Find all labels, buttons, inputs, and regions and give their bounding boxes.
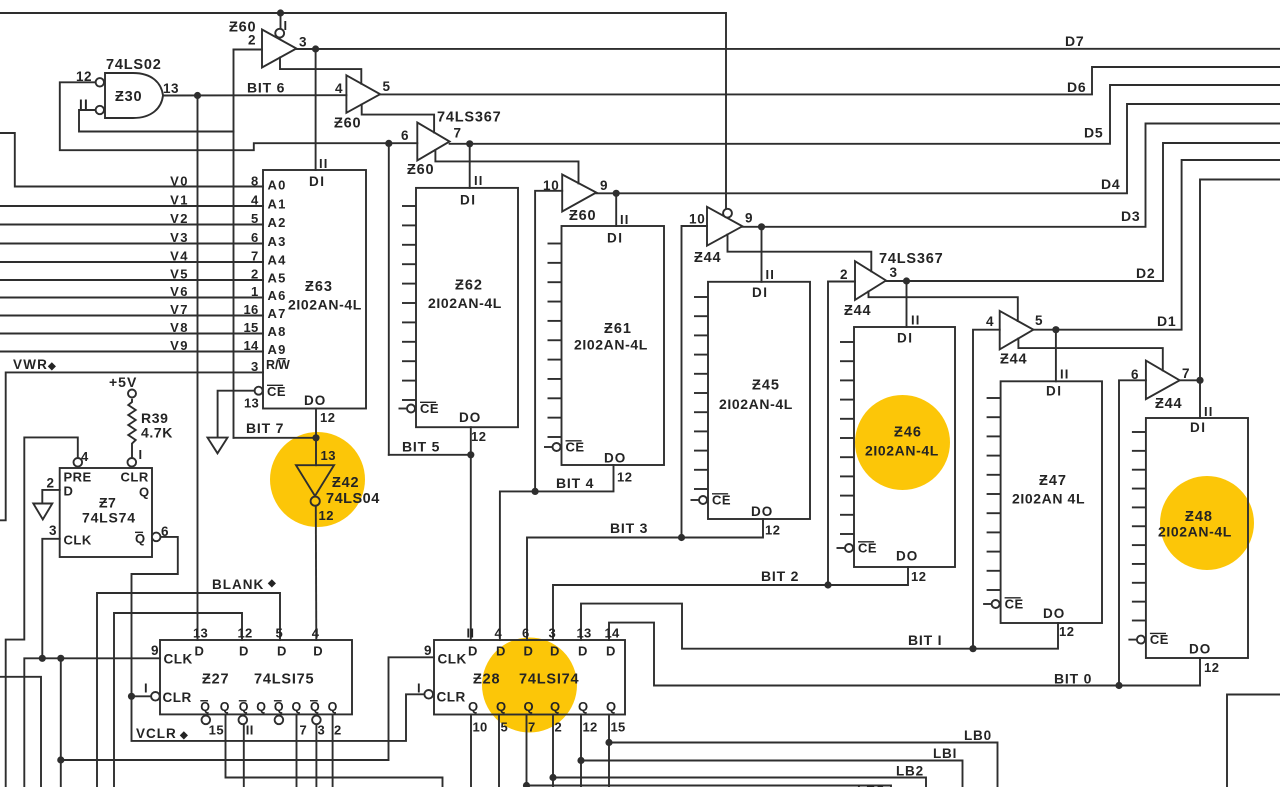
- node clock branch: [57, 655, 64, 662]
- net label BIT 4: [556, 475, 594, 491]
- svg-text:2: 2: [840, 267, 848, 282]
- svg-text:II: II: [1060, 367, 1070, 382]
- wire V0 address line: [0, 133, 263, 187]
- svg-text:DO: DO: [459, 410, 481, 425]
- wire D4 bus from buffer Z60d output: [596, 104, 1280, 193]
- wire LB1 line: [581, 761, 963, 788]
- wire BIT1 riser to buffer Z44c: [973, 330, 1000, 649]
- svg-text:W: W: [278, 358, 290, 372]
- svg-text:CE: CE: [712, 493, 731, 508]
- wire clock branch down: [60, 658, 62, 787]
- pin 4 label buffer Z44c: [986, 314, 994, 329]
- wire D0 bus from buffer Z44d output: [1200, 180, 1280, 381]
- net label V1: [170, 192, 189, 207]
- svg-text:Ƶ60: Ƶ60: [334, 116, 361, 132]
- wire enable jog Z44c to Z44d: [1018, 339, 1162, 371]
- resistor R39 4.7K with +5V: [109, 374, 173, 462]
- highlight circle over Z28: [482, 638, 577, 733]
- svg-text:2I02AN-4L: 2I02AN-4L: [288, 297, 362, 313]
- node enable rail junction: [277, 9, 284, 16]
- svg-text:74LS74: 74LS74: [82, 510, 136, 526]
- wire V5 address line: [0, 279, 263, 281]
- ram Z45 2102AN-4L (BIT 3): [691, 267, 811, 538]
- ram Z63 2102AN-4L (BIT 7): [243, 156, 366, 425]
- svg-text:13: 13: [244, 396, 259, 411]
- svg-text:CE: CE: [566, 440, 585, 455]
- svg-text:VCLR: VCLR: [136, 726, 177, 741]
- svg-text:7: 7: [251, 249, 259, 264]
- wire Z45 DO BIT3 to Z28 pin 6: [527, 519, 763, 640]
- svg-text:Ƶ44: Ƶ44: [694, 250, 721, 266]
- latch Z28 74LS174: [417, 626, 626, 735]
- wire BIT5 riser to buffer Z60c: [388, 143, 390, 454]
- svg-text:Ƶ46: Ƶ46: [894, 425, 922, 441]
- node D2 buffer output: [903, 277, 910, 284]
- node D4 buffer output: [613, 190, 620, 197]
- svg-text:Ƶ7: Ƶ7: [99, 495, 116, 511]
- svg-text:3: 3: [549, 626, 557, 641]
- buffer Z60 section 2-3 (D7): [262, 29, 296, 68]
- svg-text:DI: DI: [897, 331, 914, 346]
- net label LB0: [964, 728, 992, 743]
- highlight circle over Z42: [270, 432, 365, 527]
- net label V5: [170, 266, 189, 281]
- wire V6 address line: [0, 297, 263, 299]
- svg-text:12: 12: [319, 508, 334, 523]
- wire D3 to Z45 DI: [761, 227, 763, 282]
- svg-text:DI: DI: [1046, 384, 1063, 399]
- svg-text:12: 12: [583, 720, 598, 735]
- svg-text:Q: Q: [496, 699, 507, 714]
- svg-text:I: I: [144, 681, 148, 696]
- svg-text:8: 8: [251, 174, 259, 189]
- svg-text:Ƶ60: Ƶ60: [569, 208, 596, 224]
- node D5 buffer output: [466, 140, 473, 147]
- ram Z62 2102AN-4L (BIT 5): [399, 173, 519, 444]
- svg-text:D: D: [64, 484, 74, 499]
- net label V9: [170, 338, 189, 353]
- svg-text:II: II: [911, 313, 921, 328]
- node LB2 branch: [549, 774, 556, 781]
- svg-text:DI: DI: [309, 174, 326, 189]
- net label BLANK*: [212, 577, 277, 592]
- svg-text:CLR: CLR: [121, 470, 149, 485]
- node clock link to Z28: [57, 756, 64, 763]
- node BIT6 branch: [194, 92, 201, 99]
- pin 10 label buffer Z44a: [689, 212, 706, 227]
- svg-text:D: D: [578, 644, 588, 659]
- svg-text:74LS04: 74LS04: [326, 491, 380, 507]
- svg-text:V7: V7: [170, 302, 189, 317]
- node BIT4 branch: [532, 488, 539, 495]
- pin 6 label buffer Z60c: [401, 128, 409, 143]
- wire D2 to Z46 DI: [906, 281, 908, 327]
- svg-text:Ƶ45: Ƶ45: [752, 378, 780, 394]
- pin 5 label buffer Z44c: [1035, 313, 1043, 328]
- node BIT7 at Z63 DO: [312, 434, 319, 441]
- svg-text:D: D: [239, 644, 249, 659]
- ram Z61 2102AN-4L (BIT 4): [544, 212, 664, 485]
- svg-text:A4: A4: [268, 253, 287, 268]
- svg-text:2I02AN-4L: 2I02AN-4L: [574, 337, 648, 353]
- svg-text:14: 14: [243, 338, 259, 353]
- pin 3 label buffer Z44b: [890, 265, 898, 280]
- svg-text:4: 4: [81, 449, 89, 464]
- svg-text:II: II: [467, 626, 475, 641]
- svg-text:A1: A1: [268, 197, 287, 212]
- svg-text:II: II: [474, 173, 484, 188]
- svg-text:12: 12: [320, 410, 335, 425]
- wire lower-left horizontal: [0, 677, 41, 787]
- svg-text:V6: V6: [170, 284, 189, 299]
- wire BIT5 horizontal: [389, 454, 471, 456]
- wire Z28 pin 10 output: [470, 715, 472, 788]
- wire clock link to Z28 CLK: [61, 657, 434, 760]
- wire Z30 pin 11 input from BIT7 net: [79, 110, 234, 132]
- svg-text:7: 7: [300, 723, 308, 738]
- designator Z44c: [1000, 352, 1027, 368]
- svg-text:Ƶ47: Ƶ47: [1039, 473, 1067, 489]
- svg-text:13: 13: [193, 626, 208, 641]
- net label VCLR*: [136, 726, 189, 741]
- svg-text:9: 9: [745, 211, 753, 226]
- wire BIT2 riser to buffer Z44b: [828, 282, 855, 586]
- svg-text:4: 4: [312, 626, 320, 641]
- svg-text:II: II: [1204, 404, 1214, 419]
- svg-text:3: 3: [299, 35, 307, 50]
- wire BIT3 riser to buffer Z44a: [682, 226, 708, 538]
- net label D2: [1136, 265, 1156, 281]
- wire Z47 DO BIT1 to Z28 pin 13: [581, 604, 1058, 649]
- svg-text:CLR: CLR: [437, 690, 466, 705]
- svg-text:Ƶ28: Ƶ28: [473, 672, 500, 688]
- svg-text:14: 14: [605, 626, 621, 641]
- wire Z28 pin 2 output: [552, 715, 554, 788]
- svg-text:LBI: LBI: [933, 746, 957, 761]
- svg-text:D: D: [606, 644, 616, 659]
- wire VCLR to Z27 CLR bubble: [132, 695, 151, 697]
- svg-text:II: II: [319, 156, 329, 171]
- svg-text:BIT 7: BIT 7: [246, 420, 284, 436]
- wire LB0 line: [609, 743, 998, 788]
- pin 10 label buffer Z60d: [543, 178, 560, 193]
- svg-text:CLK: CLK: [438, 652, 467, 667]
- svg-text:Q: Q: [328, 700, 339, 714]
- wire D7 to Z63 DI: [315, 49, 317, 170]
- net label D1: [1157, 313, 1177, 329]
- svg-text:CLR: CLR: [163, 690, 192, 705]
- svg-text:Q: Q: [220, 700, 231, 714]
- net label BIT 0: [1054, 671, 1092, 687]
- pin 3 label buffer Z60a: [299, 35, 307, 50]
- svg-text:12: 12: [765, 523, 780, 538]
- pin 9 label buffer Z60d: [600, 178, 608, 193]
- wire enable rail to buffer Z44 pin 1: [0, 13, 726, 209]
- svg-text:2I02AN-4L: 2I02AN-4L: [719, 396, 793, 412]
- svg-text:D1: D1: [1157, 313, 1177, 329]
- wire D6 bus from buffer Z60b output: [380, 67, 1280, 94]
- net label BIT 5: [402, 439, 440, 455]
- svg-text:4: 4: [495, 626, 503, 641]
- svg-text:74LSI75: 74LSI75: [254, 672, 314, 688]
- pin 2 label buffer Z44b: [840, 267, 848, 282]
- svg-text:A8: A8: [268, 324, 287, 339]
- wire BIT0 riser to buffer Z44d: [1119, 380, 1146, 685]
- arrow symbol Z63 CE: [208, 438, 228, 454]
- highlight circle over Z48: [1160, 476, 1254, 570]
- svg-text:D: D: [550, 644, 560, 659]
- wire Z28 pin 12 output: [580, 715, 582, 788]
- flip-flop Z7 74LS74: [47, 449, 170, 557]
- svg-text:A3: A3: [268, 234, 287, 249]
- svg-text:10: 10: [689, 212, 706, 227]
- svg-text:II: II: [620, 212, 630, 227]
- svg-text:12: 12: [1059, 624, 1074, 639]
- svg-text:D: D: [277, 644, 287, 659]
- svg-text:D6: D6: [1067, 79, 1087, 95]
- svg-text:LB2: LB2: [896, 764, 924, 779]
- wire D3 bus from buffer Z44a output: [742, 124, 1280, 227]
- node clock at Z7 CLK: [39, 655, 46, 662]
- svg-text:13: 13: [577, 626, 592, 641]
- svg-text:BIT 4: BIT 4: [556, 475, 594, 491]
- wire LB3 line: [527, 786, 892, 788]
- svg-text:A7: A7: [268, 306, 287, 321]
- wire feed to Z27 D pin 12: [114, 613, 242, 787]
- designator Z60c: [407, 162, 434, 178]
- wire BIT7 riser: [233, 50, 235, 438]
- svg-text:V2: V2: [170, 211, 189, 226]
- wire buffer Z44d output to apex: [1180, 379, 1200, 381]
- svg-text:12: 12: [911, 569, 926, 584]
- net label V2: [170, 211, 189, 226]
- svg-text:BIT I: BIT I: [908, 632, 942, 648]
- designator Z60b: [334, 116, 361, 132]
- part label 74LS367 lower: [879, 251, 943, 267]
- svg-text:15: 15: [243, 320, 258, 335]
- net label VWR*: [13, 357, 57, 372]
- svg-text:3: 3: [49, 523, 57, 538]
- wire Z62 DO BIT5 to Z28 pin 11: [470, 427, 472, 640]
- buffer Z44 section 6-7 (D0): [1146, 361, 1180, 400]
- designator Z60a: [229, 20, 256, 36]
- wire Z28 pin 15 output: [608, 715, 610, 788]
- svg-text:CE: CE: [1005, 597, 1024, 612]
- pin 9 label buffer Z44a: [745, 211, 753, 226]
- wire Z27 pin 15 output: [226, 714, 443, 787]
- wire Z42 output to Z27 D pin 4: [315, 506, 318, 640]
- svg-text:D: D: [195, 644, 205, 659]
- svg-text:◆: ◆: [179, 730, 189, 741]
- wire Z28 pin 7 output: [526, 715, 528, 788]
- svg-text:5: 5: [1035, 313, 1043, 328]
- wire BIT7 horizontal: [234, 437, 317, 439]
- svg-text:D2: D2: [1136, 265, 1156, 281]
- pin 6 label buffer Z44d: [1131, 367, 1139, 382]
- svg-text:13: 13: [163, 81, 179, 96]
- designator Z60d: [569, 208, 596, 224]
- wire enable jog Z44a to Z44b: [728, 235, 872, 272]
- wire D5 bus from buffer Z60c output: [450, 85, 1280, 144]
- net label BIT 3: [610, 520, 648, 536]
- net label V4: [170, 248, 189, 263]
- svg-text:Q: Q: [292, 700, 303, 714]
- svg-text:V5: V5: [170, 266, 189, 281]
- node LB0 branch: [605, 739, 612, 746]
- svg-text:Q: Q: [468, 699, 479, 714]
- wire V7 address line: [0, 315, 263, 317]
- svg-text:I: I: [139, 447, 143, 462]
- net label BIT 1: [908, 632, 942, 648]
- net label BIT 7: [246, 420, 284, 436]
- wire D4 to Z61 DI: [615, 193, 617, 226]
- svg-text:16: 16: [243, 302, 258, 317]
- svg-text:15: 15: [611, 720, 626, 735]
- svg-text:3: 3: [890, 265, 898, 280]
- svg-text:2: 2: [334, 723, 342, 738]
- svg-text:V9: V9: [170, 338, 189, 353]
- svg-text:12: 12: [471, 429, 486, 444]
- net label LB1: [933, 746, 957, 761]
- svg-text:V8: V8: [170, 320, 189, 335]
- wire Z27 pin 2 output: [332, 714, 334, 787]
- svg-text:Q: Q: [274, 700, 284, 714]
- net label V7: [170, 302, 189, 317]
- svg-text:7: 7: [454, 126, 462, 141]
- svg-text:DO: DO: [604, 451, 626, 466]
- svg-text:Ƶ60: Ƶ60: [407, 162, 434, 178]
- svg-text:A0: A0: [268, 178, 287, 193]
- svg-text:D: D: [468, 644, 478, 659]
- svg-text:2: 2: [555, 720, 563, 735]
- wire Z27 pin 7 output: [296, 714, 298, 787]
- svg-text:D7: D7: [1065, 33, 1085, 49]
- net label V0: [170, 173, 189, 188]
- svg-text:Q: Q: [524, 699, 535, 714]
- buffer Z44 section 4-5 (D1): [1000, 311, 1034, 350]
- svg-text:D: D: [524, 644, 534, 659]
- wire D7 bus from buffer Z60a output: [296, 48, 1280, 50]
- wire Z30 pin 12 input from D5 net: [60, 82, 418, 150]
- svg-text:3: 3: [251, 359, 259, 374]
- svg-text:9: 9: [151, 643, 159, 658]
- svg-text:CE: CE: [420, 401, 439, 416]
- ram Z47 2102AN 4L (BIT 1): [983, 367, 1102, 640]
- node LB3 branch: [523, 782, 530, 789]
- svg-text:DI: DI: [1190, 420, 1207, 435]
- pin 1 label buffer Z60a: [284, 18, 288, 33]
- ram Z46 2102AN-4L (BIT 2): [837, 313, 956, 585]
- wire Z46 DO BIT2 to Z28 pin 3: [553, 567, 908, 640]
- node LB1 branch: [577, 757, 584, 764]
- wire Z27 pin 11 output: [243, 724, 245, 787]
- wire enable stub to buffer Z60 pin 1: [280, 13, 282, 29]
- svg-text:V4: V4: [170, 248, 189, 263]
- svg-text:Q: Q: [606, 699, 617, 714]
- node BIT2 branch: [824, 581, 831, 588]
- wire V9 address line: [0, 351, 263, 353]
- wire Z30 pin 13 output BIT6 to buffer Z60b: [163, 94, 346, 96]
- svg-text:6: 6: [522, 626, 530, 641]
- wire Z61 DO BIT4 to Z28 pin 4: [500, 465, 614, 640]
- wire Z28 pin 5 output: [498, 715, 500, 788]
- svg-text:74LS02: 74LS02: [106, 57, 162, 73]
- svg-text:CLK: CLK: [64, 533, 92, 548]
- wire enable jog Z60c to Z60d: [435, 150, 578, 184]
- svg-text:Q: Q: [239, 700, 249, 714]
- wire Z7 D input to arrow: [42, 490, 59, 504]
- svg-text:Ƶ60: Ƶ60: [229, 20, 256, 36]
- wire Z48 DO BIT0 to Z28 pin 14: [609, 623, 1200, 686]
- svg-text:BIT 6: BIT 6: [247, 80, 285, 96]
- svg-text:10: 10: [473, 720, 488, 735]
- net label V8: [170, 320, 189, 335]
- wire D1 bus from buffer Z44c output: [1033, 160, 1280, 330]
- svg-text:5: 5: [383, 79, 391, 94]
- net label LB3: [857, 783, 885, 792]
- svg-text:Ƶ44: Ƶ44: [1000, 352, 1027, 368]
- svg-text:Ƶ27: Ƶ27: [202, 672, 229, 688]
- node D3 buffer output: [758, 223, 765, 230]
- wire Z7 PRE to page bottom: [6, 437, 78, 787]
- svg-text:Ƶ42: Ƶ42: [332, 475, 359, 491]
- svg-text:D3: D3: [1121, 208, 1141, 224]
- svg-text:74LS367: 74LS367: [437, 110, 501, 126]
- svg-text:12: 12: [617, 470, 632, 485]
- svg-text:◆: ◆: [47, 361, 57, 372]
- svg-text:D4: D4: [1101, 176, 1121, 192]
- svg-text:BIT 2: BIT 2: [761, 568, 799, 584]
- svg-text:12: 12: [238, 626, 253, 641]
- svg-text:12: 12: [1204, 660, 1219, 675]
- node BIT1 branch: [969, 645, 976, 652]
- svg-text:D: D: [313, 644, 323, 659]
- svg-text:LB3: LB3: [857, 783, 885, 787]
- svg-text:6: 6: [401, 128, 409, 143]
- wire Z27 pin 3 output: [315, 724, 317, 787]
- svg-text:CE: CE: [858, 541, 877, 556]
- svg-text:D: D: [496, 644, 506, 659]
- svg-text:CE: CE: [1150, 632, 1169, 647]
- svg-text:BIT 5: BIT 5: [402, 439, 440, 455]
- svg-text:Q: Q: [135, 531, 146, 546]
- svg-text:Q: Q: [139, 485, 150, 500]
- svg-text:2: 2: [47, 476, 55, 491]
- wire clock bus from page bottom to Z27 CLK: [24, 658, 160, 787]
- svg-text:1: 1: [251, 284, 259, 299]
- node D1 buffer output: [1052, 326, 1059, 333]
- svg-text:LB0: LB0: [964, 728, 992, 743]
- wire enable jog Z44b to Z44c: [869, 292, 1018, 322]
- wire Z63 DO to Z42 input: [315, 409, 317, 466]
- arrow symbol Z7 D input: [33, 504, 52, 520]
- svg-text:PRE: PRE: [64, 470, 92, 485]
- svg-text:V0: V0: [170, 173, 189, 188]
- part label 74LS367 upper: [437, 110, 501, 126]
- buffer Z44 section 2-3 (D2): [855, 261, 886, 300]
- svg-text:Q: Q: [550, 699, 561, 714]
- node BIT5 into buffer Z60c input: [385, 140, 392, 147]
- wire Z63 CE to arrow: [218, 391, 255, 438]
- net label BIT 6: [247, 80, 285, 96]
- svg-text:VWR: VWR: [13, 357, 48, 372]
- wire buffer Z60a input from BIT7 riser: [234, 49, 263, 51]
- wire enable jog Z60a to Z60b: [280, 58, 361, 84]
- wire V4 address line: [0, 261, 263, 263]
- svg-text:2I02AN 4L: 2I02AN 4L: [1012, 491, 1085, 507]
- pin 7 label buffer Z60c: [454, 126, 462, 141]
- svg-text:BIT 3: BIT 3: [610, 520, 648, 536]
